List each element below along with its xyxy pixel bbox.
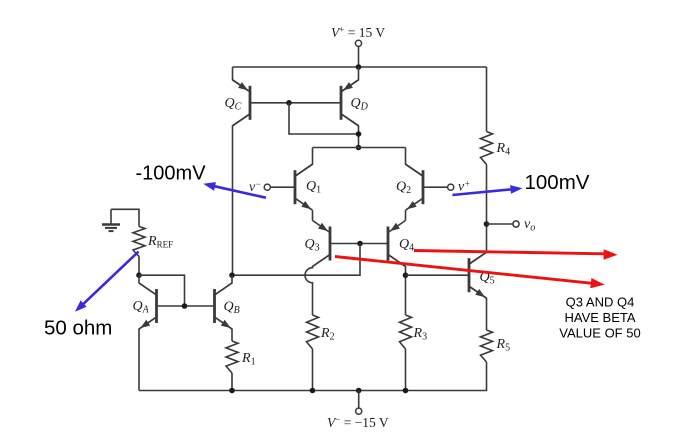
transistor Q3	[313, 221, 331, 267]
label QC	[225, 96, 242, 113]
wire Q2 collector riser	[406, 148, 424, 177]
node rail R3	[403, 388, 409, 394]
wire Q4 collector to R3	[388, 255, 406, 316]
node Q4 collector Q5 base junction	[403, 272, 409, 278]
transistor Q1	[295, 164, 313, 210]
svg-text:Q3 AND Q4: Q3 AND Q4	[566, 295, 635, 310]
svg-text:v−: v−	[249, 179, 261, 195]
terminal v-	[264, 184, 270, 190]
label vo	[524, 217, 535, 234]
label R2	[320, 326, 335, 343]
resistor R4	[481, 132, 493, 165]
power rail V+ top wire	[233, 66, 487, 68]
wire QD collector down	[341, 114, 359, 148]
annotation arrow red from Q3	[335, 257, 605, 289]
svg-text:vo: vo	[524, 217, 535, 234]
wire Q3 collector with crossover hop to R2	[305, 255, 330, 316]
svg-text:QD: QD	[351, 96, 369, 113]
wire Q3 base to Q4 base	[330, 243, 388, 245]
svg-text:R5: R5	[496, 337, 511, 354]
bottom rail V- wire	[139, 362, 487, 391]
svg-text:V+ = 15 V: V+ = 15 V	[331, 25, 385, 41]
resistor RREF	[133, 226, 145, 256]
node base junction QC QD	[286, 100, 292, 106]
label R1	[241, 351, 256, 368]
wire QA emitter to bottom rail	[139, 317, 157, 391]
transistor QD	[341, 80, 359, 126]
label QA	[133, 299, 150, 316]
annotation arrow blue to v- input	[203, 182, 266, 198]
label v+	[458, 179, 470, 195]
annotation text -100mV	[136, 163, 207, 185]
node collector bus junction	[356, 145, 362, 151]
label V+ = 15 V	[331, 25, 385, 41]
svg-text:R2: R2	[320, 326, 335, 343]
label Q5	[480, 270, 495, 287]
label R3	[413, 326, 428, 343]
wire base link to QD collector (diode connection)	[289, 103, 359, 134]
svg-text:v+: v+	[458, 179, 470, 195]
annotation arrow blue to v+ input	[452, 185, 522, 195]
resistor R3	[400, 315, 412, 349]
wire QB emitter to R1	[215, 317, 233, 341]
wire R2 to rail	[312, 349, 314, 391]
svg-text:R3: R3	[413, 326, 428, 343]
wire Q1 emitter to Q3 emitter	[312, 210, 314, 220]
wire R1 to rail	[231, 373, 233, 391]
transistor Q2	[406, 164, 424, 210]
wire RREF node to QA QB base link	[139, 275, 185, 306]
svg-text:QC: QC	[225, 96, 242, 113]
terminal v+	[448, 184, 454, 190]
wire R4 to Q5 collector	[486, 165, 488, 253]
label v-	[249, 179, 261, 195]
wire Q5 collector diag	[469, 252, 487, 264]
node left bias junction	[229, 272, 235, 278]
label Q4	[399, 237, 414, 254]
wire Q1 collector riser	[295, 148, 313, 177]
label RREF	[147, 234, 173, 250]
wire Q5 base	[406, 274, 470, 276]
svg-text:RREF: RREF	[147, 234, 173, 250]
transistor QC	[233, 80, 251, 126]
svg-text:HAVE BETA: HAVE BETA	[564, 310, 635, 325]
wire Q5 emitter to R5	[469, 286, 487, 330]
svg-text:QB: QB	[224, 300, 240, 317]
resistor R5	[481, 330, 493, 362]
wire Q2 emitter to Q4 emitter	[405, 210, 407, 220]
wire Q1 base to input terminal	[271, 186, 296, 188]
wire QC base to QD base	[250, 102, 341, 104]
label Q3	[305, 237, 320, 254]
wire RREF to node	[138, 256, 140, 275]
wire QA base to QB base	[157, 305, 215, 307]
wire QC emitter to rail	[233, 67, 251, 92]
wire output node to terminal	[487, 223, 513, 225]
ground symbol	[102, 209, 120, 231]
label V- = -15 V	[327, 415, 389, 431]
node junction top rail	[356, 64, 362, 70]
svg-text:Q3: Q3	[305, 237, 320, 254]
annotation text 50 ohm	[44, 317, 112, 340]
node rail V- stem	[356, 388, 362, 394]
label QB	[224, 300, 240, 317]
svg-text:R4: R4	[496, 141, 511, 158]
wire ground to RREF	[111, 209, 139, 226]
node QD collector junction	[356, 131, 362, 137]
resistor R1	[226, 341, 238, 373]
label R4	[496, 141, 511, 158]
wire Q1 Q2 collector bus	[313, 147, 406, 149]
label R5	[496, 337, 511, 354]
transistor Q5	[469, 252, 487, 298]
node below RREF	[136, 272, 142, 278]
svg-text:QA: QA	[133, 299, 150, 316]
wire R3 to rail	[405, 349, 407, 391]
wire QD emitter to rail	[341, 67, 359, 92]
wire Q2 base to input terminal	[423, 186, 448, 188]
node rail R1	[229, 388, 235, 394]
terminal V- supply	[356, 391, 362, 415]
label QD	[351, 96, 369, 113]
svg-text:-100mV: -100mV	[136, 163, 207, 185]
transistor Q4	[388, 221, 406, 267]
wire QA collector to RREF node	[139, 275, 157, 295]
terminal V+ supply	[355, 40, 361, 67]
annotation text 100mV	[525, 171, 590, 194]
resistor R2	[307, 315, 319, 349]
transistor QA	[139, 283, 157, 329]
svg-text:V− = −15 V: V− = −15 V	[327, 415, 389, 431]
wire QC collector down left rail	[233, 114, 251, 275]
label Q2	[396, 180, 411, 197]
svg-text:50 ohm: 50 ohm	[44, 317, 112, 340]
label Q1	[306, 179, 321, 196]
svg-text:100mV: 100mV	[525, 171, 590, 194]
wire QB collector to left node	[215, 275, 233, 295]
svg-text:Q4: Q4	[399, 237, 414, 254]
svg-text:Q1: Q1	[306, 179, 321, 196]
svg-text:R1: R1	[241, 351, 256, 368]
terminal vo	[513, 221, 519, 227]
transistor QB	[215, 283, 233, 329]
wire base bias from left node to Q3 Q4 bases	[232, 244, 360, 276]
node Q3 Q4 base junction	[357, 241, 363, 247]
annotation arrow blue to RREF	[75, 252, 139, 312]
annotation arrow red from Q4	[414, 249, 618, 259]
wire rail to R4	[486, 67, 488, 132]
svg-text:Q2: Q2	[396, 180, 411, 197]
svg-text:VALUE OF 50: VALUE OF 50	[559, 326, 640, 341]
node rail R2	[310, 388, 316, 394]
node QA QB base junction	[182, 303, 188, 309]
node output junction	[484, 221, 490, 227]
annotation text Q3 Q4 beta note	[559, 295, 640, 341]
